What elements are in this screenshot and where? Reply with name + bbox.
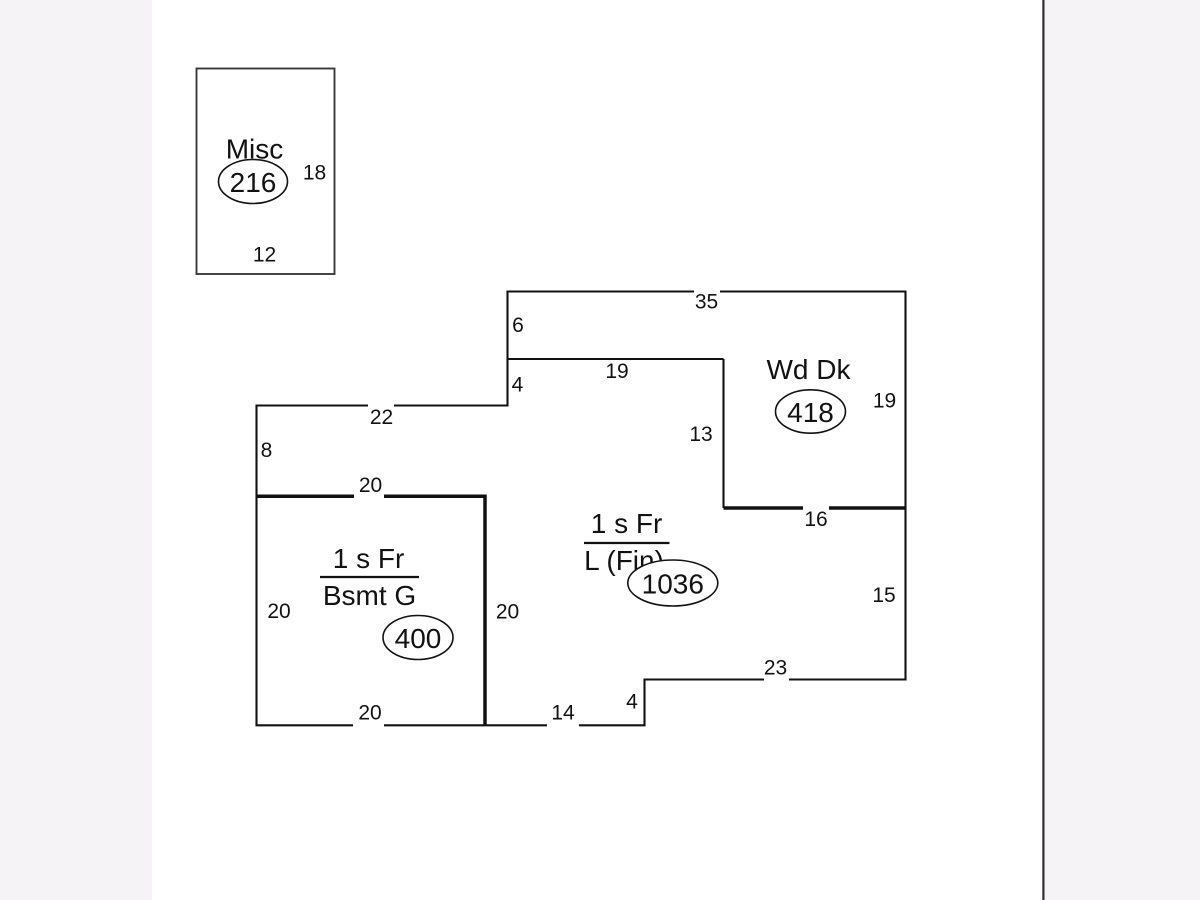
svg-text:4: 4 — [512, 374, 524, 397]
svg-text:19: 19 — [873, 390, 896, 413]
canvas right border line — [1042, 0, 1044, 900]
svg-text:1036: 1036 — [642, 569, 704, 600]
svg-text:216: 216 — [230, 167, 277, 198]
svg-text:20: 20 — [358, 702, 381, 725]
svg-text:8: 8 — [261, 439, 273, 462]
svg-text:12: 12 — [253, 244, 276, 267]
svg-text:13: 13 — [689, 423, 712, 446]
Misc area ellipse — [219, 160, 288, 204]
Misc building outline — [197, 69, 335, 275]
halo gap for dimension 20 garage top — [354, 476, 384, 500]
main structure outer boundary — [257, 292, 906, 726]
halo gap for dimension 14 — [547, 703, 579, 727]
svg-text:418: 418 — [787, 397, 834, 428]
interior wall 19 (horizontal) — [508, 358, 724, 360]
svg-text:Bsmt G: Bsmt G — [323, 580, 416, 611]
svg-text:20: 20 — [359, 474, 382, 497]
svg-text:20: 20 — [496, 601, 519, 624]
svg-text:22: 22 — [370, 406, 393, 429]
svg-text:6: 6 — [512, 314, 524, 337]
house label divider — [584, 542, 670, 544]
halo gap for dimension 20 garage bottom — [353, 703, 384, 727]
bold wall 16 (deck bottom) — [724, 506, 907, 510]
svg-text:19: 19 — [605, 360, 628, 383]
interior wall 13 (vertical) — [722, 359, 724, 508]
halo gap for dimension 35 — [694, 290, 720, 313]
svg-text:23: 23 — [764, 657, 787, 680]
bold wall 20 (garage top) — [256, 495, 486, 499]
Wd Dk area ellipse — [776, 390, 846, 433]
svg-text:400: 400 — [395, 623, 442, 654]
halo gap for dimension 16 — [803, 505, 829, 529]
white sketch canvas — [152, 0, 1043, 900]
svg-text:4: 4 — [626, 691, 638, 714]
svg-text:1 s Fr: 1 s Fr — [333, 543, 405, 574]
svg-text:Wd Dk: Wd Dk — [767, 354, 852, 385]
svg-text:35: 35 — [695, 291, 718, 314]
svg-text:14: 14 — [551, 702, 575, 725]
halo gap for dimension 22 — [368, 404, 394, 427]
svg-text:1 s Fr: 1 s Fr — [591, 508, 663, 539]
garage area ellipse — [383, 616, 453, 660]
svg-text:18: 18 — [303, 162, 326, 185]
halo gap for dimension 23 — [764, 658, 789, 682]
garage label divider — [320, 576, 419, 578]
svg-text:15: 15 — [872, 584, 895, 607]
bold wall 20 (garage right) — [483, 495, 487, 726]
svg-text:16: 16 — [804, 508, 827, 531]
house area ellipse — [628, 560, 718, 606]
svg-text:20: 20 — [267, 600, 290, 623]
